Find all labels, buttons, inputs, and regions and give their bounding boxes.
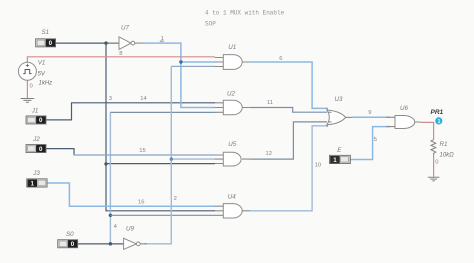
svg-text:U5: U5 (228, 141, 236, 148)
svg-text:U4: U4 (228, 193, 236, 200)
wire red V1 to U1 (27, 57, 215, 63)
svg-text:8: 8 (119, 51, 122, 57)
svg-text:J1: J1 (31, 107, 39, 114)
svg-text:S1: S1 (42, 29, 50, 36)
inverter U7 (109, 37, 143, 50)
svg-text:5: 5 (374, 137, 377, 143)
and-gate U4 (223, 204, 242, 218)
svg-text:J3: J3 (32, 170, 40, 177)
svg-text:0: 0 (39, 117, 43, 124)
svg-text:J2: J2 (32, 136, 40, 143)
node junction S1 (104, 41, 107, 44)
svg-text:PR1: PR1 (431, 109, 444, 116)
wire red U6 output to probe (420, 122, 433, 139)
svg-text:1: 1 (333, 157, 337, 164)
svg-text:U9: U9 (126, 226, 134, 233)
svg-text:1: 1 (438, 119, 441, 125)
svg-text:S0: S0 (66, 231, 74, 238)
inverter U9 (124, 238, 147, 249)
wire red V1 to ground (26, 80, 28, 98)
wire 6 U1 to U3 (250, 62, 327, 108)
pin stubs U5 (215, 155, 251, 164)
and-gate U5 (223, 152, 241, 166)
wire net 1 from U7 (143, 43, 216, 107)
and-gate U6 (395, 116, 415, 129)
wire net 4 branch to U4 (110, 214, 215, 216)
svg-text:SOP: SOP (205, 21, 216, 28)
svg-text:5V: 5V (38, 72, 46, 78)
wire 15 J2 to U5 (46, 149, 74, 155)
svg-text:14: 14 (140, 96, 147, 102)
svg-text:1: 1 (31, 180, 35, 187)
svg-text:3: 3 (109, 96, 112, 102)
probe PR1 (435, 117, 442, 125)
svg-text:15: 15 (139, 148, 145, 154)
node junction net2 (170, 157, 173, 160)
wire net 4 vertical S0 (109, 112, 111, 243)
wire 9 U3 to U6 (353, 116, 391, 118)
node junction net1 (179, 60, 182, 63)
svg-text:16: 16 (138, 199, 144, 205)
switch E (329, 155, 350, 164)
net marker under 1 (160, 41, 164, 42)
svg-text:U2: U2 (227, 91, 235, 98)
svg-text:U7: U7 (121, 24, 129, 31)
svg-text:U6: U6 (400, 105, 408, 112)
svg-text:U1: U1 (228, 44, 236, 51)
svg-text:U3: U3 (335, 96, 343, 103)
svg-text:0: 0 (30, 83, 33, 89)
and-gate U2 (223, 100, 242, 115)
and-gate U1 (223, 55, 242, 70)
svg-text:6: 6 (279, 56, 282, 62)
pin stubs U4 (215, 206, 251, 215)
wire net 2 from U9 (144, 66, 171, 243)
wire 14 J1 to U2 (46, 103, 215, 120)
wire net 1 branch U1 (181, 61, 215, 63)
switch S1 (36, 39, 56, 47)
svg-text:R1: R1 (440, 141, 448, 148)
node junction net3 U5 (104, 162, 107, 165)
svg-text:2: 2 (174, 196, 177, 202)
switch J2 (26, 145, 46, 153)
svg-text:10kΩ: 10kΩ (440, 153, 455, 159)
wire S1 to U7 (56, 42, 119, 44)
pin stubs (gate pin leads) (215, 58, 421, 216)
wire net 3 vertical S1 (106, 43, 215, 211)
pin stubs U6 (387, 117, 421, 126)
wire red resistor to ground (433, 155, 435, 178)
switch S0 (58, 240, 78, 248)
switch J3 (27, 179, 47, 188)
switch J1 (26, 116, 46, 124)
svg-text:9: 9 (368, 110, 371, 116)
voltage source V1 (18, 62, 36, 80)
wire 5 E to U6 (350, 127, 390, 160)
node junction S0 (109, 242, 112, 245)
svg-text:11: 11 (267, 100, 273, 106)
svg-text:12: 12 (266, 151, 272, 157)
svg-text:1kHz: 1kHz (39, 81, 53, 87)
resistor R1 (431, 140, 436, 155)
ground R1 (428, 177, 440, 181)
svg-text:V1: V1 (38, 59, 46, 66)
wire 16 J3 to U4 (47, 183, 215, 206)
pin stubs U2 (215, 103, 251, 113)
wire 12 U5 to U3 (250, 122, 327, 159)
or-gate U3 (327, 110, 346, 125)
svg-text:0: 0 (71, 241, 75, 248)
svg-text:0: 0 (49, 40, 53, 47)
wire 11 U2 to U3 (250, 108, 327, 113)
ground V1 (21, 99, 35, 103)
svg-text:10: 10 (315, 163, 321, 169)
wire S0 to U9 (78, 243, 124, 245)
svg-text:0: 0 (39, 146, 43, 153)
node junction net4 U4 (109, 214, 112, 217)
wire net 4 top to U2 (110, 111, 215, 113)
svg-text:4 to 1 MUX with Enable: 4 to 1 MUX with Enable (205, 10, 285, 17)
pin stubs U1 (215, 58, 251, 67)
pin stub U3 output (346, 116, 353, 118)
wire 10 U4 to U3 (250, 126, 327, 211)
wire net 3 branch to U5 (106, 163, 215, 165)
svg-text:0: 0 (435, 160, 438, 166)
wire net 2 branch U5 (171, 158, 215, 160)
